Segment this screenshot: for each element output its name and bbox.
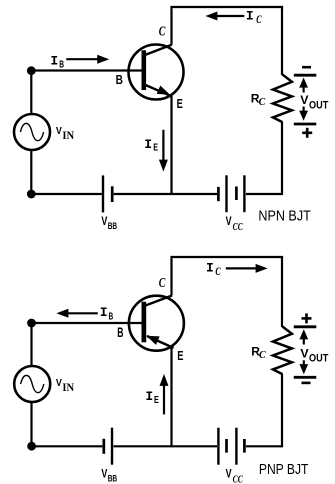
label V_CC (NPN) (226, 214, 244, 233)
transistor Q2 PNP (circle, base bar, collector and emitter strokes) (129, 296, 184, 351)
wire: bottom rail between V_BB and V_CC (114, 193, 217, 195)
node: junction of V_IN and base wire (PNP) (27, 319, 36, 328)
pin label C (collector, PNP) (159, 275, 166, 290)
label V_BB (PNP) (101, 466, 117, 483)
label V_BB (NPN) (101, 214, 117, 231)
svg-text:V: V (101, 466, 107, 480)
wire: base wire from input node to transistor base (PNP) (32, 322, 142, 324)
battery V_CC (PNP): short plate 1 (225, 439, 228, 453)
battery V_CC (NPN): long plate 1 (225, 175, 227, 212)
V_OUT down arrow (PNP) (299, 360, 308, 374)
svg-text:C: C (159, 24, 166, 39)
svg-text:E: E (153, 143, 158, 154)
battery V_CC (PNP): long plate 1 (217, 428, 219, 465)
svg-text:B: B (59, 59, 64, 70)
svg-text:I: I (50, 54, 58, 69)
wire: emitter down from transistor to bottom rail (PNP) (170, 348, 172, 447)
svg-text:I: I (144, 137, 152, 152)
svg-text:OUT: OUT (309, 99, 329, 111)
current label I_B with left arrow (PNP) (56, 305, 113, 322)
wire: left vertical from V_IN bottom to bottom rail (30, 150, 32, 194)
current label I_C with right arrow (PNP) (206, 260, 268, 278)
battery V_CC (NPN): long plate 2 (243, 175, 245, 212)
node: junction of V_IN and base wire (27, 66, 36, 75)
svg-text:I: I (206, 260, 214, 275)
svg-text:C: C (159, 275, 166, 290)
battery V_BB (NPN): long plate (102, 175, 104, 212)
svg-text:V: V (101, 214, 107, 228)
pin label E (emitter, PNP) (177, 348, 183, 363)
resistor R_C (PNP collector resistor zigzag) (273, 327, 292, 375)
V_OUT polarity minus sign (NPN, top) (302, 66, 311, 69)
current label I_E with down arrow (NPN) (144, 130, 168, 172)
wire: from R_C bottom down to bottom rail (281, 122, 283, 194)
svg-text:E: E (177, 348, 183, 363)
pin label C (collector, NPN) (159, 24, 166, 39)
svg-text:I: I (246, 9, 254, 24)
svg-text:V: V (56, 377, 62, 389)
svg-text:BB: BB (108, 221, 118, 231)
wire: bottom rail from left node to battery V_BB (PNP) (32, 445, 103, 447)
wire: top rail from collector to R_C branch (PNP) (170, 256, 283, 258)
svg-text:CC: CC (233, 474, 244, 484)
wire: collector up from transistor to top rail (170, 8, 172, 45)
svg-text:E: E (177, 96, 183, 111)
svg-text:C: C (215, 266, 221, 278)
V_OUT bottom terminal bar (NPN) (294, 123, 317, 126)
ac source V_IN (NPN input sine source) (14, 114, 50, 150)
V_OUT top terminal bar (NPN) (294, 74, 317, 77)
transistor Q1 NPN (circle, base bar, collector and emitter strokes) (129, 45, 184, 100)
wire: bottom rail from V_CC to right branch (246, 193, 283, 195)
label V_OUT (NPN) (300, 93, 328, 111)
svg-text:V: V (226, 214, 232, 228)
resistor R_C (NPN collector resistor zigzag) (273, 75, 292, 123)
battery V_BB (PNP): short plate (102, 439, 105, 454)
node: junction of V_IN bottom and ground rail (27, 190, 36, 199)
wire: left vertical from node down to V_IN source top (30, 71, 32, 115)
V_OUT bottom terminal bar (PNP) (294, 376, 317, 379)
ac source V_IN (PNP input sine source) (14, 366, 50, 402)
svg-text:IN: IN (62, 382, 74, 394)
svg-text:B: B (109, 311, 114, 322)
svg-text:V: V (56, 125, 62, 137)
battery V_BB (NPN): short plate (111, 186, 114, 202)
current label I_E with up arrow (PNP) (145, 374, 168, 415)
svg-text:PNP BJT: PNP BJT (259, 462, 309, 478)
wire: right branch from top rail down to R_C (PNP) (281, 257, 283, 327)
wire: bottom rail between V_BB and V_CC (PNP) (114, 445, 218, 447)
V_OUT up arrow (PNP) (299, 329, 308, 344)
svg-text:I: I (145, 389, 153, 404)
svg-text:I: I (100, 305, 108, 320)
V_OUT polarity plus sign (PNP, top) (302, 313, 312, 323)
svg-text:C: C (256, 14, 262, 26)
wire: from R_C bottom down to bottom rail (PNP) (281, 374, 283, 446)
battery V_CC (NPN): short plate 2 (235, 187, 238, 201)
svg-text:V: V (300, 346, 309, 360)
caption NPN BJT (258, 208, 310, 224)
current label I_B with right arrow (50, 54, 109, 71)
wire: left vertical from node down to V_IN source top (PNP) (30, 323, 32, 367)
wire: collector up from transistor to top rail (PNP) (170, 258, 172, 295)
battery V_BB (PNP): long plate (111, 428, 113, 465)
label V_IN (PNP) (56, 377, 75, 394)
label R_C (NPN) (251, 91, 266, 107)
wire: bottom rail from V_CC to right branch (PNP) (246, 445, 283, 447)
label V_CC (PNP) (226, 467, 244, 484)
wire: base wire from input node to transistor base (31, 69, 141, 71)
node: junction of V_IN bottom and ground rail (PNP) (27, 442, 36, 451)
svg-text:C: C (259, 97, 266, 108)
battery V_CC (NPN): short plate 1 (217, 187, 220, 201)
svg-text:OUT: OUT (309, 353, 329, 365)
pin label E (emitter, NPN) (177, 96, 183, 111)
wire: bottom rail from left node to battery V_BB (31, 193, 102, 195)
svg-text:B: B (116, 73, 123, 87)
pin label B (base, PNP) (117, 325, 123, 340)
V_OUT polarity minus sign (PNP, bottom) (302, 382, 311, 385)
svg-text:V: V (226, 467, 232, 481)
wire: right branch from top rail down to R_C (281, 7, 283, 75)
V_OUT down arrow (NPN) (299, 107, 308, 121)
svg-text:V: V (300, 93, 309, 107)
wire: left vertical from V_IN bottom to bottom rail (PNP) (30, 402, 32, 446)
svg-text:IN: IN (62, 130, 74, 142)
label V_IN (56, 125, 75, 142)
V_OUT up arrow (NPN) (299, 78, 308, 93)
battery V_CC (PNP): short plate 2 (243, 439, 246, 453)
pin label B (base, NPN) (116, 73, 123, 87)
V_OUT polarity plus sign (NPN, bottom) (302, 128, 312, 138)
V_OUT top terminal bar (PNP) (294, 325, 317, 328)
battery V_CC (PNP): long plate 2 (235, 428, 237, 465)
current label I_C with left arrow (NPN) (205, 9, 261, 27)
wire: top rail from collector to R_C branch (170, 6, 283, 8)
wire: emitter down from transistor to bottom rail (170, 96, 172, 194)
caption PNP BJT (259, 462, 309, 478)
svg-text:NPN BJT: NPN BJT (258, 208, 310, 224)
svg-text:BB: BB (108, 474, 118, 484)
label R_C (PNP) (251, 344, 266, 360)
svg-text:B: B (117, 325, 123, 340)
svg-text:C: C (259, 350, 266, 361)
svg-text:E: E (154, 395, 159, 406)
label V_OUT (PNP) (300, 346, 328, 364)
svg-text:CC: CC (233, 221, 244, 233)
